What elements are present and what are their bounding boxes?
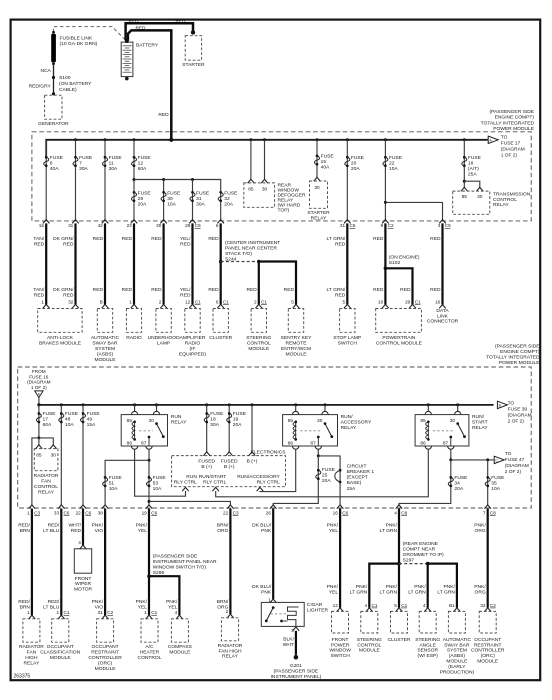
wire PNK/YEL to A/C heater control via S295 bbox=[148, 509, 150, 616]
svg-text:BATTERY: BATTERY bbox=[136, 43, 159, 49]
svg-text:RED/GRY: RED/GRY bbox=[29, 84, 52, 90]
svg-text:60A: 60A bbox=[138, 166, 147, 172]
wire to data link connector bbox=[441, 223, 443, 304]
svg-text:85: 85 bbox=[462, 194, 468, 200]
svg-text:HIGH: HIGH bbox=[25, 655, 38, 661]
svg-text:19: 19 bbox=[233, 417, 239, 423]
svg-text:TAN/: TAN/ bbox=[33, 236, 44, 242]
svg-text:PNK/: PNK/ bbox=[386, 584, 398, 590]
svg-text:32: 32 bbox=[480, 603, 486, 608]
svg-text:25A: 25A bbox=[347, 486, 356, 492]
fuse 11 30A bbox=[104, 156, 107, 159]
svg-text:BASE): BASE) bbox=[347, 480, 362, 486]
svg-text:FAN HIGH: FAN HIGH bbox=[218, 648, 242, 654]
svg-text:SWAY BAR: SWAY BAR bbox=[444, 642, 470, 648]
run/start relay 87 output: fuse 34 + fuse 35 + to fuse 47 bbox=[450, 449, 452, 460]
svg-text:RED: RED bbox=[430, 236, 441, 242]
svg-text:49: 49 bbox=[87, 417, 93, 423]
svg-text:30: 30 bbox=[149, 418, 155, 424]
svg-text:86: 86 bbox=[288, 441, 294, 447]
svg-text:2: 2 bbox=[159, 299, 162, 304]
svg-text:20A: 20A bbox=[224, 201, 233, 207]
svg-text:POWER MODULE: POWER MODULE bbox=[493, 126, 534, 132]
svg-text:CLASSIFICATION: CLASSIFICATION bbox=[40, 650, 80, 656]
automatic sway bar system (ASBS) module (early production) bbox=[454, 608, 461, 612]
svg-text:FUSE: FUSE bbox=[491, 475, 505, 481]
svg-text:30A: 30A bbox=[79, 166, 88, 172]
svg-text:C1: C1 bbox=[372, 603, 378, 608]
wire to S244 and cluster bbox=[220, 223, 222, 304]
svg-text:RED: RED bbox=[284, 287, 295, 293]
svg-text:RED: RED bbox=[93, 287, 104, 293]
radiator fan high relay (pin 2) bbox=[227, 614, 234, 618]
wire to defogger relay 85 bbox=[250, 140, 252, 180]
svg-text:ENGINE COMPT): ENGINE COMPT) bbox=[495, 115, 535, 121]
svg-text:(ON ENGINE): (ON ENGINE) bbox=[389, 255, 420, 261]
svg-text:31: 31 bbox=[98, 610, 104, 615]
run/accessory relay bbox=[295, 405, 297, 412]
pin 16 C6 bbox=[337, 505, 344, 509]
svg-text:4: 4 bbox=[175, 610, 178, 615]
wire fuse 48 column bbox=[60, 405, 62, 505]
wire bbox=[191, 223, 193, 304]
fuse 34 20A bbox=[449, 476, 452, 479]
run relay bbox=[134, 405, 136, 412]
svg-text:RESTRAINT: RESTRAINT bbox=[91, 650, 119, 656]
generator bbox=[45, 95, 62, 119]
wire RED/GRY bbox=[53, 78, 55, 94]
svg-text:10: 10 bbox=[378, 299, 384, 304]
svg-text:(PASSENGER SIDE: (PASSENGER SIDE bbox=[153, 554, 198, 560]
svg-text:4: 4 bbox=[394, 511, 397, 516]
svg-text:1: 1 bbox=[268, 597, 271, 602]
svg-text:WHT: WHT bbox=[283, 642, 294, 648]
svg-text:CLUSTER: CLUSTER bbox=[388, 637, 411, 643]
svg-text:BRN/: BRN/ bbox=[217, 523, 229, 529]
svg-text:(ORC): (ORC) bbox=[98, 661, 112, 667]
svg-text:30: 30 bbox=[317, 418, 323, 424]
wire PNK/LT GRN to cluster via S297 bbox=[398, 509, 400, 608]
svg-text:30A: 30A bbox=[196, 201, 205, 207]
svg-text:CONTROLLER: CONTROLLER bbox=[471, 648, 505, 654]
wire B(+) column bbox=[251, 405, 253, 452]
svg-text:PNK/: PNK/ bbox=[474, 523, 486, 529]
svg-text:LAMP: LAMP bbox=[157, 340, 170, 346]
svg-text:RED: RED bbox=[63, 292, 74, 298]
svg-text:C5: C5 bbox=[445, 223, 451, 228]
wire branch to steering control module bbox=[369, 564, 399, 608]
wire to circuit breaker 1 bbox=[318, 456, 340, 505]
svg-text:2 OF 2): 2 OF 2) bbox=[505, 469, 522, 475]
wire to steering angle sensor bbox=[427, 564, 429, 608]
svg-text:S295: S295 bbox=[153, 570, 165, 576]
svg-text:C3: C3 bbox=[233, 511, 239, 516]
fuse 18 (A/T) 25A bbox=[463, 156, 466, 159]
svg-text:18: 18 bbox=[468, 160, 474, 166]
svg-text:ACCESSORY: ACCESSORY bbox=[341, 420, 372, 426]
svg-text:1: 1 bbox=[144, 610, 147, 615]
fuse 25 20A bbox=[317, 469, 320, 472]
svg-text:RELAY: RELAY bbox=[24, 661, 40, 667]
svg-text:C2: C2 bbox=[107, 610, 113, 615]
fuse 32 20A bbox=[219, 191, 222, 194]
svg-text:RED: RED bbox=[151, 236, 162, 242]
svg-text:FRONT: FRONT bbox=[332, 637, 349, 643]
svg-text:C6: C6 bbox=[342, 511, 348, 516]
svg-text:GENERATOR: GENERATOR bbox=[38, 121, 69, 127]
pin 38 bbox=[102, 505, 109, 509]
svg-text:RED: RED bbox=[180, 241, 191, 247]
svg-text:1: 1 bbox=[27, 511, 30, 516]
svg-text:29: 29 bbox=[138, 196, 144, 202]
svg-text:RED: RED bbox=[93, 236, 104, 242]
svg-text:FAN: FAN bbox=[41, 479, 51, 485]
svg-text:31: 31 bbox=[340, 223, 346, 228]
pin 31 bbox=[72, 220, 79, 224]
svg-text:B (+): B (+) bbox=[247, 459, 258, 465]
svg-text:9: 9 bbox=[381, 223, 384, 228]
svg-text:CIRCUIT: CIRCUIT bbox=[347, 463, 367, 469]
fuse 48 10A bbox=[60, 412, 63, 415]
svg-text:30: 30 bbox=[477, 194, 483, 200]
svg-text:S297: S297 bbox=[403, 557, 415, 563]
svg-text:RED: RED bbox=[122, 236, 133, 242]
svg-text:C6: C6 bbox=[85, 511, 91, 516]
svg-text:ORG: ORG bbox=[475, 528, 486, 534]
svg-text:STACK T/O): STACK T/O) bbox=[225, 251, 252, 257]
svg-text:AMPLIFIER: AMPLIFIER bbox=[180, 335, 206, 341]
compass module bbox=[176, 615, 183, 619]
svg-text:10A: 10A bbox=[109, 486, 118, 492]
svg-text:PNK/: PNK/ bbox=[166, 599, 178, 605]
svg-text:TRANSMISSION: TRANSMISSION bbox=[493, 191, 531, 197]
pin 26 bbox=[270, 505, 277, 509]
fuse 20 20A bbox=[346, 156, 349, 159]
fuse 17 60A + radiator fan control relay bbox=[38, 405, 40, 438]
svg-text:51: 51 bbox=[109, 481, 115, 487]
svg-text:MODULE: MODULE bbox=[286, 351, 308, 357]
svg-text:FUSE: FUSE bbox=[50, 155, 64, 161]
svg-text:SWITCH: SWITCH bbox=[330, 653, 350, 659]
wire fuse 19 column bbox=[228, 405, 230, 452]
wire bbox=[163, 223, 165, 304]
battery bbox=[121, 42, 133, 77]
wire to defogger relay 30 bbox=[264, 140, 266, 180]
svg-text:BRN/: BRN/ bbox=[217, 599, 229, 605]
electronics dashed box bbox=[172, 456, 286, 487]
svg-text:SWAY BAR: SWAY BAR bbox=[92, 340, 118, 346]
svg-text:CLUSTER: CLUSTER bbox=[209, 335, 232, 341]
svg-text:ANTI-LOCK: ANTI-LOCK bbox=[47, 335, 74, 341]
svg-text:NCA: NCA bbox=[40, 68, 51, 74]
svg-text:30: 30 bbox=[450, 418, 456, 424]
svg-text:PNK/: PNK/ bbox=[386, 523, 398, 529]
pin 23 bbox=[131, 220, 138, 224]
svg-text:B (+): B (+) bbox=[201, 464, 212, 470]
wire PNK/YEL to front power window switch bbox=[339, 509, 341, 608]
svg-text:RUN/START: RUN/START bbox=[199, 474, 227, 480]
svg-text:LT GRN: LT GRN bbox=[408, 589, 426, 595]
wire to steering control module bbox=[258, 262, 260, 305]
svg-text:FUSE: FUSE bbox=[79, 155, 93, 161]
svg-text:FUSE 16: FUSE 16 bbox=[29, 374, 48, 379]
svg-text:30A: 30A bbox=[109, 166, 118, 172]
wire fuse 30 column bbox=[163, 180, 165, 220]
amplifier radio (if equipped) bbox=[189, 304, 196, 308]
occupant classification module bbox=[58, 615, 65, 619]
fuse 30 10A bbox=[162, 191, 165, 194]
svg-text:15: 15 bbox=[321, 159, 327, 165]
pin 6 bbox=[217, 220, 224, 224]
svg-text:ANGLE: ANGLE bbox=[419, 642, 436, 648]
svg-text:BREAKER 1: BREAKER 1 bbox=[347, 469, 375, 475]
cluster bbox=[396, 608, 403, 612]
svg-text:C1: C1 bbox=[401, 603, 407, 608]
svg-text:20A: 20A bbox=[322, 478, 331, 484]
svg-text:25A: 25A bbox=[468, 171, 477, 177]
svg-text:FUSE: FUSE bbox=[167, 190, 181, 196]
svg-text:RED: RED bbox=[63, 241, 74, 247]
wire to sentry key module bbox=[259, 262, 296, 305]
svg-text:31: 31 bbox=[196, 196, 202, 202]
svg-text:RELAY: RELAY bbox=[493, 202, 509, 208]
wire fuse 53 to pin 22 C3 bbox=[149, 501, 230, 505]
wire DK BLU/PNK to cigar lighter bbox=[272, 509, 274, 599]
svg-text:C1: C1 bbox=[415, 299, 421, 304]
svg-text:12: 12 bbox=[138, 160, 144, 166]
svg-text:16: 16 bbox=[435, 299, 441, 304]
svg-text:PANEL NEAR CENTER: PANEL NEAR CENTER bbox=[225, 246, 277, 252]
pin 30 bbox=[160, 220, 167, 224]
svg-text:(A/T): (A/T) bbox=[468, 166, 479, 172]
svg-text:SYSTEM: SYSTEM bbox=[95, 346, 115, 352]
wire fuse 15 to starter relay bbox=[316, 140, 318, 178]
svg-text:FUSE: FUSE bbox=[233, 411, 247, 417]
steering control module bbox=[256, 304, 263, 308]
svg-text:PNK/: PNK/ bbox=[443, 584, 455, 590]
svg-text:LT GRN: LT GRN bbox=[380, 528, 398, 534]
svg-text:FUSE: FUSE bbox=[468, 155, 482, 161]
transmission control relay box bbox=[453, 191, 490, 214]
svg-text:FUSE: FUSE bbox=[351, 155, 365, 161]
svg-text:29: 29 bbox=[405, 299, 411, 304]
svg-text:POWER: POWER bbox=[331, 642, 350, 648]
svg-text:7: 7 bbox=[79, 160, 82, 166]
wire bbox=[104, 223, 106, 304]
bus 2 bbox=[39, 404, 494, 406]
svg-text:FUSE: FUSE bbox=[321, 154, 335, 160]
svg-text:TO: TO bbox=[505, 451, 512, 457]
a/c heater control bbox=[146, 615, 153, 619]
svg-text:FUSE 47: FUSE 47 bbox=[505, 457, 525, 463]
svg-text:1: 1 bbox=[41, 299, 44, 304]
wire dashed battery positive cable path bbox=[54, 27, 125, 40]
svg-text:PNK/: PNK/ bbox=[414, 584, 426, 590]
svg-text:VIO: VIO bbox=[95, 528, 104, 534]
svg-text:TOTALLY INTEGRATED: TOTALLY INTEGRATED bbox=[486, 354, 540, 360]
fuse 15 40A bbox=[316, 154, 319, 157]
svg-text:22: 22 bbox=[223, 511, 229, 516]
svg-text:(ASBS): (ASBS) bbox=[449, 653, 466, 659]
svg-text:(DIAGRAM: (DIAGRAM bbox=[27, 380, 51, 385]
svg-text:FUSE: FUSE bbox=[196, 190, 210, 196]
svg-text:19: 19 bbox=[142, 511, 148, 516]
svg-text:MODULE: MODULE bbox=[477, 659, 499, 665]
svg-text:FUSE: FUSE bbox=[109, 155, 123, 161]
svg-text:AUTOMATIC: AUTOMATIC bbox=[91, 335, 120, 341]
wire bbox=[74, 223, 76, 304]
front wiper motor bbox=[80, 545, 87, 549]
svg-text:STEERING: STEERING bbox=[357, 637, 382, 643]
svg-text:(ORC): (ORC) bbox=[481, 653, 495, 659]
svg-text:B (+): B (+) bbox=[224, 464, 235, 470]
svg-text:SYSTEM: SYSTEM bbox=[447, 648, 467, 654]
fuse 29 20A bbox=[133, 191, 136, 194]
svg-text:30: 30 bbox=[314, 185, 320, 191]
svg-text:MODULE: MODULE bbox=[50, 655, 72, 661]
svg-text:LIGHTER: LIGHTER bbox=[307, 608, 329, 614]
svg-text:86: 86 bbox=[127, 441, 133, 447]
wire fuse 7 column bbox=[75, 140, 77, 220]
svg-text:RED: RED bbox=[373, 236, 384, 242]
svg-text:YEL: YEL bbox=[329, 528, 339, 534]
svg-text:18: 18 bbox=[210, 417, 216, 423]
wire fuse 31 column bbox=[192, 180, 194, 220]
svg-text:5: 5 bbox=[291, 299, 294, 304]
svg-text:10A: 10A bbox=[389, 166, 398, 172]
svg-text:SENSOR: SENSOR bbox=[417, 648, 438, 654]
svg-text:LT GRN: LT GRN bbox=[380, 589, 398, 595]
svg-text:16: 16 bbox=[333, 511, 339, 516]
svg-text:22: 22 bbox=[389, 160, 395, 166]
powertrain control module bbox=[382, 304, 389, 308]
svg-text:TO: TO bbox=[508, 401, 515, 407]
svg-text:RED: RED bbox=[335, 241, 346, 247]
radio bbox=[131, 304, 138, 308]
svg-text:PNK/: PNK/ bbox=[92, 599, 104, 605]
svg-text:RED: RED bbox=[151, 287, 162, 293]
svg-text:10A: 10A bbox=[65, 422, 74, 428]
svg-text:(EARLY: (EARLY bbox=[448, 664, 466, 670]
wire bbox=[133, 223, 135, 304]
wire fuse 6 column bbox=[45, 140, 47, 220]
svg-text:C1: C1 bbox=[64, 610, 70, 615]
svg-text:RELAY: RELAY bbox=[38, 489, 54, 495]
cigar lighter bbox=[270, 599, 277, 603]
svg-text:RADIO: RADIO bbox=[185, 340, 201, 346]
svg-text:2: 2 bbox=[226, 609, 229, 614]
pin 4 C8 bbox=[396, 505, 403, 509]
svg-text:10A: 10A bbox=[167, 201, 176, 207]
svg-text:PNK/: PNK/ bbox=[356, 584, 368, 590]
svg-text:EQUIPPED): EQUIPPED) bbox=[179, 351, 206, 357]
svg-text:ENGINE COMPT): ENGINE COMPT) bbox=[500, 349, 540, 355]
svg-text:FUSED: FUSED bbox=[221, 459, 238, 465]
pin 3 C5 bbox=[439, 220, 446, 224]
svg-text:(PASSENGER SIDE: (PASSENGER SIDE bbox=[490, 109, 535, 115]
pin 29 bbox=[189, 220, 196, 224]
svg-text:PNK/: PNK/ bbox=[327, 523, 339, 529]
svg-text:(REAR ENGINE: (REAR ENGINE bbox=[403, 541, 439, 547]
svg-text:(ASBS): (ASBS) bbox=[97, 351, 114, 357]
svg-text:C2: C2 bbox=[490, 603, 496, 608]
svg-text:MODULE: MODULE bbox=[95, 357, 117, 363]
wire branch to pin 3 C5 bbox=[385, 202, 442, 219]
svg-text:85: 85 bbox=[420, 418, 426, 424]
svg-text:32: 32 bbox=[224, 196, 230, 202]
svg-text:C3: C3 bbox=[34, 511, 40, 516]
svg-text:ENTRY/WCM: ENTRY/WCM bbox=[281, 346, 311, 352]
svg-text:1 OF 2): 1 OF 2) bbox=[501, 152, 518, 158]
wire WHT/RED to front wiper motor bbox=[82, 509, 84, 546]
svg-text:STEERING: STEERING bbox=[246, 335, 271, 341]
wire fuse 25 to pin 26 bbox=[273, 456, 318, 505]
svg-text:CONTROL: CONTROL bbox=[34, 484, 58, 490]
svg-text:FUSE: FUSE bbox=[138, 155, 152, 161]
svg-text:RADIO: RADIO bbox=[126, 335, 142, 341]
svg-text:6: 6 bbox=[216, 299, 219, 304]
svg-text:ELECTRONICS: ELECTRONICS bbox=[251, 450, 287, 456]
svg-text:RED: RED bbox=[400, 287, 411, 293]
wire BRN/ORG to radiator fan high relay pin 2 bbox=[229, 509, 231, 615]
svg-text:(PASSENGER SIDE: (PASSENGER SIDE bbox=[495, 343, 540, 349]
wire dashed S244 link bbox=[221, 261, 259, 263]
wire RED battery to starter bbox=[126, 23, 193, 40]
wire to fuse 47 arrow bbox=[451, 459, 494, 461]
svg-text:(EXCEPT: (EXCEPT bbox=[347, 475, 368, 481]
svg-text:32: 32 bbox=[68, 299, 74, 304]
svg-text:BRAKES MODULE: BRAKES MODULE bbox=[39, 340, 82, 346]
svg-text:(CENTER INSTRUMENT: (CENTER INSTRUMENT bbox=[225, 240, 280, 246]
svg-text:3: 3 bbox=[438, 223, 441, 228]
svg-text:RELAY: RELAY bbox=[222, 654, 238, 660]
svg-text:38: 38 bbox=[98, 511, 104, 516]
svg-text:263375: 263375 bbox=[14, 674, 31, 680]
svg-text:INSTRUMENT PANEL NEAR: INSTRUMENT PANEL NEAR bbox=[153, 559, 217, 565]
svg-text:FUSE: FUSE bbox=[87, 411, 101, 417]
occupant restraint controller (ORC) module bbox=[102, 615, 109, 619]
svg-text:PRODUCTION): PRODUCTION) bbox=[440, 670, 475, 676]
svg-text:RED: RED bbox=[34, 241, 45, 247]
svg-text:TO: TO bbox=[501, 134, 508, 140]
svg-text:RED: RED bbox=[136, 26, 147, 31]
svg-text:POWERTRAIN: POWERTRAIN bbox=[382, 335, 416, 341]
svg-text:FUSE: FUSE bbox=[65, 411, 79, 417]
svg-text:C1: C1 bbox=[261, 299, 267, 304]
svg-text:CONTROL MODULE: CONTROL MODULE bbox=[376, 340, 423, 346]
svg-text:MODULE: MODULE bbox=[359, 648, 381, 654]
svg-text:MODULE: MODULE bbox=[95, 666, 117, 672]
svg-text:C5: C5 bbox=[195, 223, 201, 228]
automatic sway bar system (ASBS) module bbox=[102, 304, 109, 308]
svg-text:ORG: ORG bbox=[475, 589, 486, 595]
svg-text:LT GRN/: LT GRN/ bbox=[326, 287, 345, 293]
svg-text:31: 31 bbox=[68, 223, 74, 228]
svg-text:CONTROL: CONTROL bbox=[138, 655, 162, 661]
pin 1 C3 bbox=[29, 505, 36, 509]
wire branch to compass module bbox=[149, 576, 179, 615]
svg-text:OCCUPANT: OCCUPANT bbox=[92, 644, 119, 650]
svg-text:15A: 15A bbox=[87, 422, 96, 428]
fusible link (10 GA-DK GRN) bbox=[52, 31, 55, 34]
svg-text:INSTRUMENT PANEL): INSTRUMENT PANEL) bbox=[271, 674, 322, 680]
svg-text:DK BLU/: DK BLU/ bbox=[252, 584, 272, 590]
svg-text:5: 5 bbox=[394, 603, 397, 608]
svg-text:20: 20 bbox=[351, 160, 357, 166]
svg-text:DATA: DATA bbox=[436, 308, 449, 314]
ground G201 bbox=[294, 655, 299, 660]
svg-text:RED: RED bbox=[430, 287, 441, 293]
